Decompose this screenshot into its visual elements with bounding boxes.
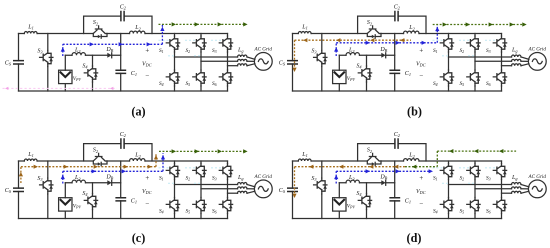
- svg-text:(b): (b): [407, 105, 422, 119]
- svg-text:(c): (c): [132, 231, 146, 245]
- svg-text:(a): (a): [131, 105, 145, 119]
- svg-text:(d): (d): [407, 231, 422, 245]
